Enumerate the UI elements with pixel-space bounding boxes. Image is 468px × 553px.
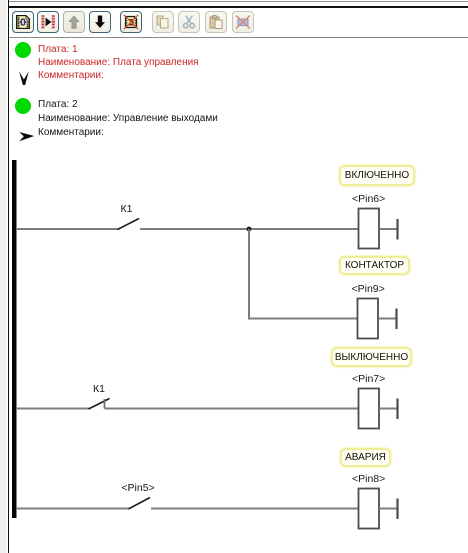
rung 4 wire: rail to contact Pin5: [16, 508, 130, 510]
contact K1 NC stop bar: [104, 399, 106, 409]
rung 3 wire: rail to contact K1 (NC): [16, 408, 90, 410]
coil Pin9 label: [352, 283, 385, 295]
coil Pin6 label: [352, 193, 385, 205]
rung 1 wire: rail to contact K1: [16, 228, 119, 230]
toolbar button: delete element (disabled): [232, 11, 254, 33]
coil Pin8 terminal bar: [396, 499, 398, 520]
top gray edge line: [9, 1, 468, 2]
rung 2 wire: branch to coil Pin9: [248, 318, 358, 320]
net label ВКЛЮЧЕННО: [339, 165, 415, 186]
coil Pin7 terminal bar: [396, 399, 398, 420]
toolbar button: move down: [89, 11, 111, 33]
board 1 expand arrow (down): [17, 69, 31, 87]
toolbar button: copy (disabled): [152, 11, 174, 33]
left gray gutter: [0, 0, 7, 553]
toolbar button: paste (disabled): [205, 11, 227, 33]
rung 4 wire: contact to coil Pin8: [151, 508, 359, 510]
coil Pin6 body: [359, 209, 380, 249]
net label КОНТАКТОР: [339, 256, 410, 275]
window top border: [9, 6, 468, 8]
left power rail: [12, 160, 17, 518]
toolbar button: delete board: [120, 11, 142, 33]
branch wire down to rung 2: [248, 229, 250, 319]
toolbar button: cut (disabled): [178, 11, 200, 33]
coil Pin6 output wire: [379, 228, 397, 230]
toolbar bottom separator: [9, 37, 468, 38]
toolbar button: add board: [12, 11, 34, 33]
board 2 status lamp (green): [15, 98, 31, 114]
contact K1 (NO) blade: [118, 219, 140, 230]
window left border: [8, 0, 10, 553]
coil Pin8 body: [359, 489, 380, 529]
board 1 header text: [38, 43, 78, 56]
board 2 expand arrow (right): [18, 131, 35, 142]
board 2 header text: [38, 98, 78, 111]
coil Pin7 body: [359, 389, 380, 429]
contact K1 NC blade: [89, 399, 110, 410]
rung 3 wire: contact to coil Pin7: [105, 408, 359, 410]
coil Pin8 label: [352, 473, 385, 485]
net label АВАРИЯ: [340, 448, 391, 467]
coil Pin7 label: [352, 373, 385, 385]
contact K1 (rung 3) label: [93, 383, 105, 395]
coil Pin7 output wire: [379, 408, 397, 410]
contact Pin5 (NO) blade: [129, 498, 151, 510]
coil Pin6 terminal bar: [396, 219, 398, 240]
coil Pin8 output wire: [379, 508, 397, 510]
toolbar button: insert board: [37, 11, 59, 33]
junction node: [247, 227, 252, 232]
rung 1 wire: contact to coil Pin6: [140, 228, 359, 230]
coil Pin9 output wire: [378, 318, 396, 320]
coil Pin9 terminal bar: [395, 309, 397, 330]
board 1 status lamp (green): [15, 42, 31, 58]
contact K1 (rung 1) label: [121, 203, 133, 215]
contact Pin5 (rung 4) label: [121, 482, 154, 494]
toolbar button: move up (disabled): [63, 11, 85, 33]
coil Pin9 body: [358, 299, 379, 339]
net label ВЫКЛЮЧЕННО: [331, 347, 412, 367]
